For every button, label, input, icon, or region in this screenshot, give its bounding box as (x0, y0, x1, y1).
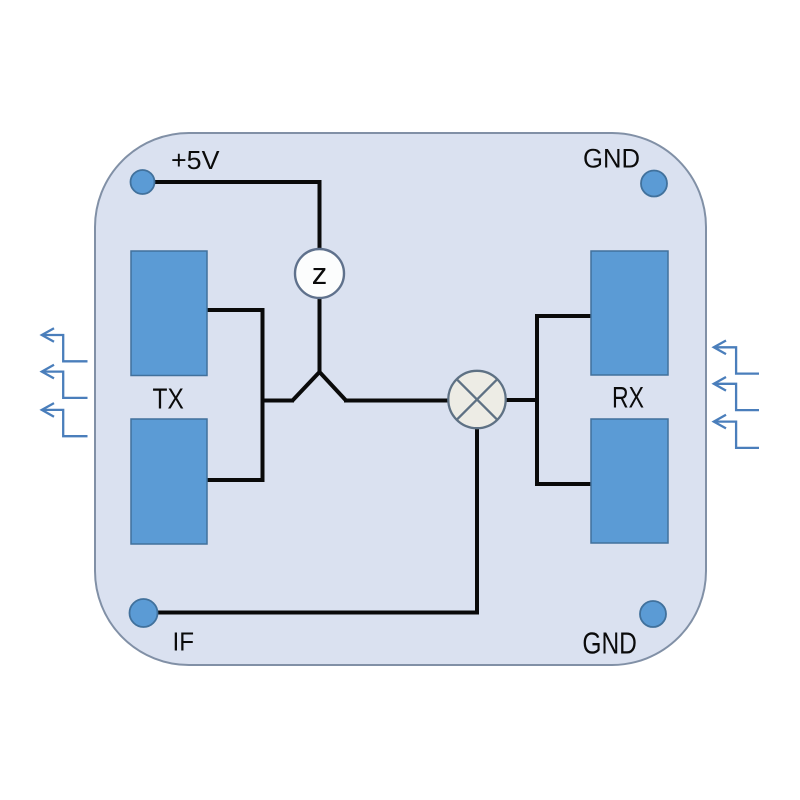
svg-text:+5V: +5V (171, 145, 220, 175)
svg-text:RX: RX (612, 382, 644, 415)
svg-text:GND: GND (583, 144, 640, 174)
svg-text:IF: IF (173, 627, 195, 657)
svg-text:GND: GND (582, 626, 637, 661)
svg-text:z: z (312, 256, 328, 291)
svg-text:TX: TX (153, 384, 184, 416)
